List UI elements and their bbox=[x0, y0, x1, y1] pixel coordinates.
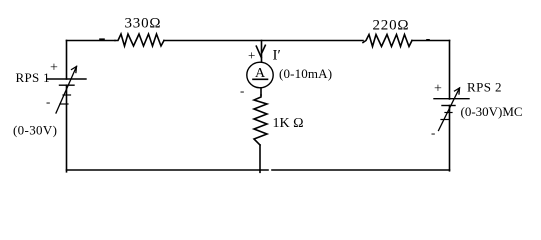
wire overlap tick on top wire bbox=[100, 38, 104, 40]
svg-text:A: A bbox=[255, 66, 266, 81]
svg-text:RPS 2: RPS 2 bbox=[467, 80, 502, 95]
svg-text:RPS 1: RPS 1 bbox=[16, 70, 50, 85]
wire left vertical lower bbox=[66, 85, 68, 172]
battery RPS1 variable arrow bbox=[56, 67, 77, 114]
wire right vertical upper bbox=[449, 41, 451, 100]
battery RPS2 tick 1 bbox=[445, 112, 452, 114]
wire ammeter to resistor bbox=[260, 88, 262, 95]
resistor R2 220ohm zigzag bbox=[363, 35, 412, 47]
svg-text:-: - bbox=[46, 94, 50, 109]
battery RPS1 tick 1 bbox=[63, 94, 71, 96]
svg-text:-: - bbox=[431, 125, 435, 140]
battery RPS2 short plate bbox=[442, 105, 455, 107]
wire left vertical upper bbox=[66, 41, 68, 80]
wire bottom-left horizontal segment bbox=[67, 169, 269, 171]
wire middle vertical top bbox=[261, 41, 263, 63]
ammeter A1 circle bbox=[247, 62, 273, 88]
resistor R1 330ohm zigzag bbox=[115, 34, 164, 46]
resistor R3 1Kohm vertical zigzag bbox=[254, 95, 267, 145]
wire bottom-right horizontal segment bbox=[272, 169, 450, 171]
wire top-left horizontal segment bbox=[67, 40, 116, 42]
junction dot on top wire bbox=[427, 39, 429, 41]
battery RPS1 long plate bbox=[47, 78, 86, 80]
svg-text:220Ω: 220Ω bbox=[373, 18, 410, 34]
svg-text:(0-30V)MC: (0-30V)MC bbox=[461, 104, 523, 119]
battery RPS1 short plate bbox=[60, 84, 75, 86]
svg-text:1K Ω: 1K Ω bbox=[273, 116, 304, 131]
ammeter A underline bbox=[253, 78, 268, 80]
wire right vertical lower bbox=[449, 106, 451, 171]
current arrow I' head bbox=[256, 46, 261, 57]
svg-text:-: - bbox=[240, 83, 244, 98]
battery RPS1 tick 2 bbox=[60, 103, 68, 105]
svg-text:+: + bbox=[434, 82, 442, 97]
svg-text:+: + bbox=[248, 48, 255, 63]
battery RPS2 long plate bbox=[434, 98, 469, 100]
node junction middle-bottom bbox=[259, 170, 261, 172]
svg-text:(0-10mA): (0-10mA) bbox=[279, 66, 332, 81]
wire resistor to bottom bbox=[259, 145, 261, 170]
battery RPS2 tick 2 bbox=[441, 119, 449, 121]
svg-text:(0-30V): (0-30V) bbox=[13, 123, 57, 138]
battery RPS2 variable arrow bbox=[439, 88, 460, 131]
wire top-right horizontal segment bbox=[412, 40, 450, 42]
svg-text:I′: I′ bbox=[273, 47, 281, 63]
svg-text:+: + bbox=[50, 61, 58, 76]
wire top-middle horizontal segment bbox=[164, 40, 363, 42]
svg-text:330Ω: 330Ω bbox=[125, 16, 162, 32]
